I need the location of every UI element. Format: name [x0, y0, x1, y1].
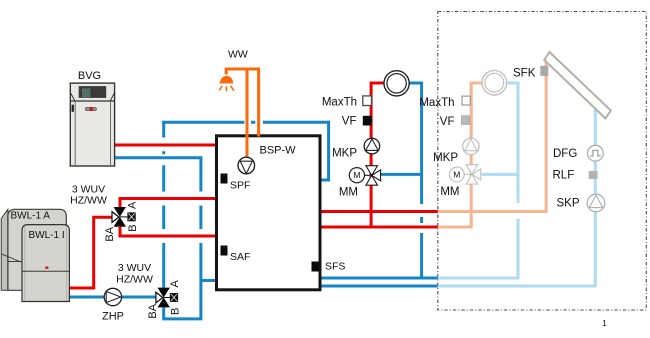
dashed option box: [438, 12, 647, 311]
wire blue bottom elbow to valve2: [164, 307, 203, 319]
wire blue down-leg x=200.9 with crossing gaps: [199, 156, 202, 319]
svg-text:MM: MM: [440, 186, 459, 198]
tank internal vent symbol: [238, 157, 255, 174]
radiator heating circuit 2: [482, 70, 507, 95]
sensor SFK square: [540, 66, 548, 76]
boiler BVG: [70, 83, 114, 166]
svg-text:A: A: [169, 279, 181, 287]
svg-text:WW: WW: [228, 49, 248, 61]
svg-text:SFK: SFK: [513, 68, 536, 80]
motor M circle of MM1: [349, 168, 364, 183]
sensor MaxTh1 square: [363, 96, 372, 106]
pump MKP2: [463, 138, 479, 154]
svg-text:BWL-1 A: BWL-1 A: [11, 211, 51, 222]
storage tank BSP-W: [217, 136, 321, 290]
svg-text:MM: MM: [339, 187, 358, 199]
sensor SPF: [221, 174, 228, 184]
heat pump BWL-1 I (front): [22, 225, 69, 302]
svg-text:MaxTh: MaxTh: [322, 97, 357, 109]
svg-text:RLF: RLF: [553, 170, 575, 182]
wire BWL-1 supply to valve1 AB (red): [64, 217, 112, 288]
svg-text:MKP: MKP: [433, 152, 458, 164]
svg-text:MKP: MKP: [332, 148, 357, 160]
wire valve1 port A to tank (red): [120, 199, 217, 208]
wire top blue line y=122 with gaps at WW crossing: [162, 121, 330, 124]
svg-text:M: M: [453, 169, 460, 179]
wire WW hot water pipe with shower (orange): [226, 68, 258, 158]
wire ZHP suction line from BWL-1: [64, 296, 156, 299]
pump ZHP: [104, 288, 121, 305]
wire BVG return (blue) to down-leg: [115, 156, 201, 159]
svg-text:B: B: [169, 308, 181, 315]
svg-text:M: M: [353, 170, 360, 180]
svg-text:MaxTh: MaxTh: [419, 97, 454, 109]
wire heating supply line 2 from tank (red): [320, 226, 438, 229]
motor M circle of MM2: [449, 167, 464, 182]
wire heating circuit 2 return (light blue): [438, 219, 518, 278]
mixing valve MM2: [464, 165, 481, 184]
svg-text:VF: VF: [440, 116, 455, 128]
solar collector panel: [544, 52, 611, 118]
svg-text:SAF: SAF: [230, 251, 250, 263]
svg-text:HZ/WW: HZ/WW: [70, 195, 107, 207]
svg-text:B: B: [127, 224, 139, 231]
svg-text:DFG: DFG: [553, 148, 577, 160]
wire solar supply (salmon): [438, 58, 546, 212]
wire solar return (light blue): [438, 109, 596, 286]
3-way valve 1 (3 WUV HZ/WW): [112, 207, 136, 227]
heat pump BWL-1 A (rear): [1, 209, 66, 290]
radiator heating circuit 1: [384, 71, 409, 96]
svg-text:1: 1: [602, 318, 607, 328]
svg-text:VF: VF: [342, 116, 357, 128]
shower head symbol: [219, 77, 233, 92]
svg-text:BA: BA: [104, 226, 116, 241]
wire blue branch to tank bottom left: [201, 279, 217, 282]
sensor VF2 square: [461, 116, 469, 125]
wire blue right vertical x=328.6 down to tank stub: [320, 121, 329, 180]
wire circuit1 blue vertical with gaps: [420, 82, 423, 280]
sensor MaxTh2 square: [462, 96, 470, 105]
svg-text:HZ/WW: HZ/WW: [116, 274, 153, 286]
wire circuit1 radiator return (blue): [409, 82, 422, 85]
wire valve1 port B to tank (red): [120, 227, 217, 236]
wire heating supply line 1 from tank (red): [320, 210, 438, 213]
svg-text:BVG: BVG: [78, 70, 101, 82]
flow meter DFG: [588, 145, 604, 161]
wire blue left vertical x=163.7 (to valve 2 A) with gaps: [162, 121, 165, 288]
sensor SFS: [312, 262, 319, 272]
wire MM1 mixer branch (blue): [381, 173, 422, 176]
wire heating circuit 2 supply (salmon): [438, 83, 483, 227]
wire circuit 2 mixer branch (light blue): [481, 173, 518, 176]
pump MKP1: [364, 138, 380, 154]
svg-text:BA: BA: [147, 303, 159, 318]
pump SKP: [587, 194, 605, 212]
sensor RLF square: [589, 171, 598, 179]
sensor SAF: [221, 246, 228, 256]
svg-text:ZHP: ZHP: [102, 311, 124, 323]
svg-text:SPF: SPF: [230, 180, 250, 192]
wire tank bottom right return line 1 (blue): [320, 277, 438, 280]
wire tank bottom right return line 2 (blue): [320, 285, 438, 288]
wire circuit1 supply vertical (red): [371, 83, 384, 227]
wire BVG supply (red): [115, 144, 217, 147]
svg-text:A: A: [126, 201, 138, 209]
svg-text:SFS: SFS: [325, 261, 345, 273]
svg-text:BSP-W: BSP-W: [260, 145, 297, 157]
mixing valve MM1: [365, 166, 381, 186]
svg-text:BWL-1 I: BWL-1 I: [29, 230, 65, 241]
3-way valve 2 (3 WUV HZ/WW): [156, 288, 178, 308]
svg-text:3 WUV: 3 WUV: [118, 262, 151, 274]
sensor VF1 square: [363, 116, 372, 126]
svg-text:SKP: SKP: [557, 198, 580, 210]
